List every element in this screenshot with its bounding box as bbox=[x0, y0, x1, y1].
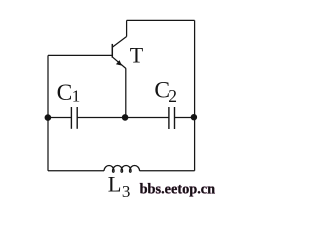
wire left vertical bbox=[47, 55, 49, 170]
wire middle: C1 to middle dot bbox=[77, 117, 125, 119]
node dot right bbox=[191, 114, 197, 120]
wire middle: left dot to C1 bbox=[48, 117, 71, 119]
transistor base bar bbox=[111, 44, 113, 58]
transistor collector slant bbox=[113, 37, 127, 48]
transistor emitter slant bbox=[113, 57, 126, 68]
capacitor C2 plates bbox=[169, 107, 175, 129]
wire collector vertical bbox=[126, 20, 128, 36]
wire top-left horizontal (left corner to base) bbox=[48, 54, 112, 56]
svg-text:2: 2 bbox=[168, 86, 177, 106]
wire bottom-left segment bbox=[48, 170, 104, 172]
wire middle: C2 to right dot bbox=[175, 117, 195, 119]
node dot middle bbox=[122, 114, 129, 121]
svg-text:1: 1 bbox=[72, 86, 81, 105]
inductor L3 coil bbox=[104, 166, 140, 173]
svg-text:L: L bbox=[108, 171, 122, 196]
transistor T bbox=[112, 37, 126, 69]
transistor emitter arrow bbox=[116, 60, 122, 66]
svg-text:3: 3 bbox=[122, 182, 130, 201]
wire middle: middle dot to C2 bbox=[125, 117, 169, 119]
wire right vertical bbox=[194, 20, 196, 170]
wire bottom-right segment bbox=[140, 170, 195, 172]
capacitor C1 plates bbox=[71, 107, 77, 129]
svg-text:bbs.eetop.cn: bbs.eetop.cn bbox=[140, 181, 216, 197]
wire emitter vertical bbox=[125, 68, 127, 117]
wire top-right horizontal bbox=[127, 19, 195, 21]
svg-text:C: C bbox=[57, 80, 73, 106]
node dot left bbox=[45, 114, 52, 121]
svg-text:T: T bbox=[130, 43, 144, 68]
